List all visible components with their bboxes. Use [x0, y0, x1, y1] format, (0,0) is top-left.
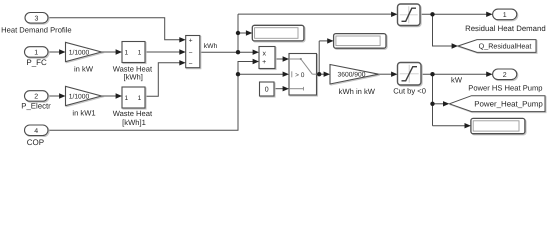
svg-text:+: +	[262, 59, 266, 66]
svg-text:in kW1: in kW1	[72, 108, 95, 117]
svg-text:Power HS Heat Pump: Power HS Heat Pump	[468, 84, 542, 93]
svg-text:3600/900: 3600/900	[338, 72, 366, 79]
svg-text:1: 1	[34, 50, 38, 57]
svg-text:−: −	[189, 50, 193, 57]
svg-text:Power_Heat_Pump: Power_Heat_Pump	[474, 100, 543, 109]
svg-text:[kWh]: [kWh]	[123, 73, 142, 82]
svg-text:1: 1	[503, 12, 507, 19]
svg-text:1: 1	[124, 50, 128, 57]
svg-text:1: 1	[124, 95, 128, 102]
svg-text:1/1000: 1/1000	[69, 94, 90, 101]
svg-text:2: 2	[503, 72, 507, 79]
svg-text:Heat Demand Profile: Heat Demand Profile	[1, 25, 72, 34]
svg-text:COP: COP	[27, 138, 44, 147]
svg-text:P_Electr: P_Electr	[21, 102, 51, 111]
svg-text:[kWh]1: [kWh]1	[122, 118, 146, 127]
svg-text:x: x	[262, 50, 266, 57]
svg-text:Q_ResidualHeat: Q_ResidualHeat	[479, 42, 532, 51]
svg-text:2: 2	[34, 94, 38, 101]
svg-text:1/1000: 1/1000	[69, 50, 90, 57]
svg-text:kWh: kWh	[204, 43, 218, 50]
svg-text:1: 1	[138, 50, 142, 57]
svg-text:kWh in kW: kWh in kW	[339, 87, 376, 96]
svg-text:Waste Heat: Waste Heat	[113, 109, 153, 118]
svg-text:kW: kW	[451, 76, 463, 85]
svg-text:Residual Heat Demand: Residual Heat Demand	[465, 24, 546, 33]
svg-text:+: +	[189, 38, 193, 45]
svg-text:in kW: in kW	[74, 65, 94, 74]
svg-text:1: 1	[138, 95, 142, 102]
svg-text:> 0: > 0	[295, 72, 305, 79]
svg-text:4: 4	[34, 128, 38, 135]
svg-text:Cut by <0: Cut by <0	[393, 87, 426, 96]
svg-text:−: −	[189, 61, 193, 68]
svg-text:0: 0	[265, 87, 269, 94]
svg-text:P_FC: P_FC	[26, 58, 47, 67]
svg-text:3: 3	[35, 15, 39, 22]
